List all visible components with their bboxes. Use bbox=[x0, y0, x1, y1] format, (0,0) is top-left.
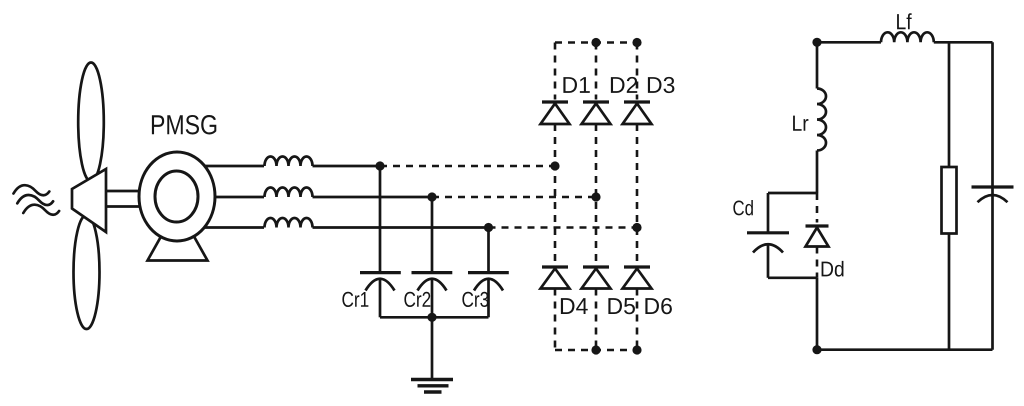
wire left branch to junction bbox=[816, 151, 819, 194]
node C bbox=[484, 223, 493, 232]
wire left branch upper bbox=[816, 42, 819, 88]
wire dc top left bbox=[817, 41, 881, 44]
wire capacitor common rail bbox=[380, 316, 489, 319]
wire bridge left leg (dashed) bbox=[554, 43, 557, 351]
label D4 bbox=[561, 298, 588, 314]
diode D4 bbox=[541, 267, 570, 289]
wire resistor branch upper bbox=[948, 42, 951, 167]
diode D5 bbox=[582, 267, 611, 289]
wind flow line 3 bbox=[23, 205, 59, 215]
capacitor Cd bbox=[747, 233, 789, 278]
label Cr3 bbox=[462, 292, 488, 307]
diode D3 bbox=[623, 102, 652, 124]
turbine hub bbox=[72, 169, 106, 232]
inductor phase B bbox=[265, 188, 313, 197]
generator stand bbox=[148, 237, 208, 261]
wire node A down to Cr1 bbox=[379, 166, 382, 273]
wire bridge bottom rail (dashed) bbox=[555, 349, 637, 352]
wire phase A (solid) bbox=[200, 165, 264, 168]
label Dd bbox=[822, 261, 844, 277]
wire phase A to node A bbox=[313, 165, 381, 168]
turbine shaft bbox=[106, 191, 150, 207]
turbine blade (bottom) bbox=[74, 215, 100, 329]
wire bridge right leg (dashed) bbox=[636, 43, 639, 351]
label D2 bbox=[611, 77, 637, 93]
wire dc top right bbox=[934, 41, 993, 44]
wire dc right branch bbox=[991, 42, 994, 349]
wind flow line 2 bbox=[17, 195, 53, 205]
label D5 bbox=[608, 298, 635, 314]
inductor phase A bbox=[265, 157, 313, 167]
label D1 bbox=[563, 77, 589, 93]
node phase C on right leg bbox=[632, 223, 641, 232]
diode D1 bbox=[541, 102, 570, 124]
wire phase B (solid) bbox=[200, 196, 264, 199]
wire phase C to node C bbox=[313, 226, 489, 229]
wire node C to bridge (dashed) bbox=[489, 226, 638, 229]
capacitor Cr3 bbox=[468, 273, 509, 318]
wire dc bottom rail bbox=[817, 348, 993, 351]
label Cd bbox=[733, 200, 753, 215]
node dc top left bbox=[812, 38, 821, 47]
capacitor Cr1 bbox=[360, 273, 401, 318]
turbine blade (top) bbox=[78, 63, 104, 182]
wire phase C (solid) bbox=[200, 226, 264, 229]
capacitor Cr2 bbox=[412, 273, 453, 318]
wire resistor branch lower bbox=[948, 234, 951, 350]
node bridge bottom right bbox=[632, 345, 641, 354]
node rail-ground junction bbox=[427, 313, 436, 322]
node bridge bottom middle bbox=[591, 345, 600, 354]
wire phase B to node B bbox=[313, 196, 433, 199]
inductor phase C bbox=[265, 218, 313, 228]
label D6 bbox=[645, 298, 672, 314]
wire node B down to Cr2 bbox=[431, 197, 434, 273]
label Lf bbox=[897, 13, 912, 29]
wire node C down to Cr3 bbox=[487, 228, 490, 273]
label Lr bbox=[793, 116, 808, 131]
node B bbox=[427, 192, 436, 201]
capacitor output bbox=[972, 187, 1014, 202]
node phase A on left leg bbox=[550, 161, 559, 170]
label PMSG bbox=[152, 115, 216, 134]
label Cr2 bbox=[404, 292, 430, 307]
wire left branch lower bbox=[816, 278, 819, 350]
node bridge top right bbox=[632, 38, 641, 47]
inductor Lr bbox=[817, 89, 826, 151]
wire Dd branch lower (dashed) bbox=[816, 247, 819, 278]
wire bridge top rail (dashed) bbox=[555, 41, 637, 44]
node dc bottom left bbox=[812, 345, 821, 354]
diode D2 bbox=[582, 102, 611, 124]
wire Dd branch upper (dashed) bbox=[816, 193, 819, 223]
wire ground stem bbox=[431, 317, 434, 378]
generator rotor (inner circle) bbox=[155, 171, 198, 222]
node bridge top middle bbox=[591, 38, 600, 47]
wire node A to bridge (dashed) bbox=[380, 165, 555, 168]
label D3 bbox=[648, 77, 675, 93]
wind flow line 1 bbox=[14, 185, 50, 195]
node A bbox=[375, 161, 384, 170]
wire Cd branch bottom bbox=[768, 276, 817, 279]
label Cr1 bbox=[342, 292, 368, 307]
diode D6 bbox=[623, 267, 652, 289]
resistor load R bbox=[942, 167, 957, 234]
wire bridge middle leg (dashed) bbox=[595, 43, 598, 351]
diode Dd bbox=[806, 226, 829, 247]
generator PMSG body bbox=[139, 152, 215, 241]
ground bbox=[411, 380, 453, 393]
wire node B to bridge (dashed) bbox=[432, 196, 596, 199]
node phase B on middle leg bbox=[591, 192, 600, 201]
wire Cd branch down bbox=[767, 193, 770, 233]
inductor Lf bbox=[881, 32, 934, 42]
wire Cd branch top bbox=[768, 192, 817, 195]
